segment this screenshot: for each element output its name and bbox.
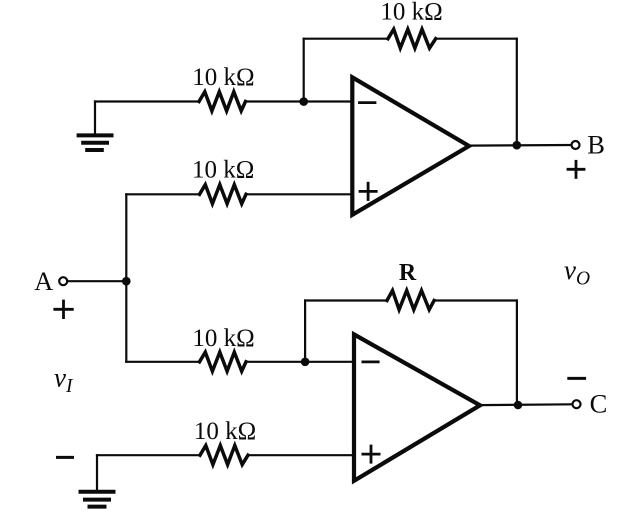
U1 minus pin symbol [360, 101, 376, 104]
terminal A circle [59, 277, 67, 285]
ground G2 (bottom left) [81, 455, 114, 506]
wire J3 up to feedback R [304, 301, 306, 362]
wire feedback R right segment [434, 299, 517, 301]
wire terminal A to node [68, 280, 127, 282]
wire R1 to U1 minus input [246, 100, 352, 102]
plus sign at terminal B [568, 161, 584, 177]
U1 plus pin symbol [360, 183, 376, 199]
wire U1 output to terminal B [469, 144, 571, 147]
wire feedback down to output node [516, 39, 518, 146]
plus sign below terminal A [55, 301, 73, 318]
wire G1 to R1 [95, 100, 199, 102]
minus sign left of ground G2 [58, 456, 73, 459]
svg-text:B: B [587, 129, 605, 159]
wire feedback left segment [304, 38, 388, 40]
node junction J4 (U2 output) [514, 401, 523, 410]
resistor R4 10 kΩ (to U2 inverting input) [200, 352, 247, 371]
resistor R6 10 kΩ (to U2 non-inverting input) [200, 446, 248, 465]
wire R4 to U2 minus input [246, 361, 353, 363]
U2 plus pin symbol [363, 446, 379, 462]
svg-text:10 kΩ: 10 kΩ [192, 325, 254, 352]
node junction J3 [301, 358, 310, 367]
svg-text:10 kΩ: 10 kΩ [194, 418, 256, 445]
wire node A up-branch to R3 [126, 193, 199, 195]
resistor R5 R (bottom feedback) [387, 291, 434, 310]
wire feedback right segment [436, 38, 517, 40]
wire R3 to U1 plus input [246, 193, 351, 195]
wire feedback R down to output node [516, 301, 518, 406]
minus sign above terminal C [569, 377, 585, 380]
svg-text:10 kΩ: 10 kΩ [192, 64, 254, 91]
svg-text:R: R [399, 260, 417, 286]
terminal B circle [572, 141, 580, 149]
wire J1 up to feedback [303, 39, 305, 102]
wire U2 output to terminal C [480, 403, 572, 406]
node junction J1 [299, 97, 308, 106]
svg-text:A: A [34, 266, 53, 296]
wire feedback R left segment [305, 299, 387, 301]
terminal C circle [573, 400, 581, 408]
ground G1 (top left) [79, 102, 112, 151]
svg-text:10 kΩ: 10 kΩ [192, 156, 254, 183]
wire vertical input bus at node A [125, 194, 127, 361]
op-amp U2 [354, 334, 480, 480]
svg-text:C: C [590, 389, 608, 419]
wire R6 to U2 plus input [248, 454, 353, 456]
svg-text:10 kΩ: 10 kΩ [380, 0, 442, 25]
node junction J2 (U1 output) [513, 141, 522, 150]
resistor R3 10 kΩ (to U1 non-inverting input) [200, 185, 247, 204]
op-amp U1 [352, 77, 469, 215]
wire G2 to R6 [97, 454, 200, 456]
wire node A down-branch to R4 [126, 361, 199, 363]
node junction A [122, 277, 131, 286]
U2 minus pin symbol [363, 360, 378, 363]
resistor R1 10 kΩ (to U1 inverting input) [199, 92, 246, 111]
resistor R2 10 kΩ (top feedback) [388, 29, 436, 48]
